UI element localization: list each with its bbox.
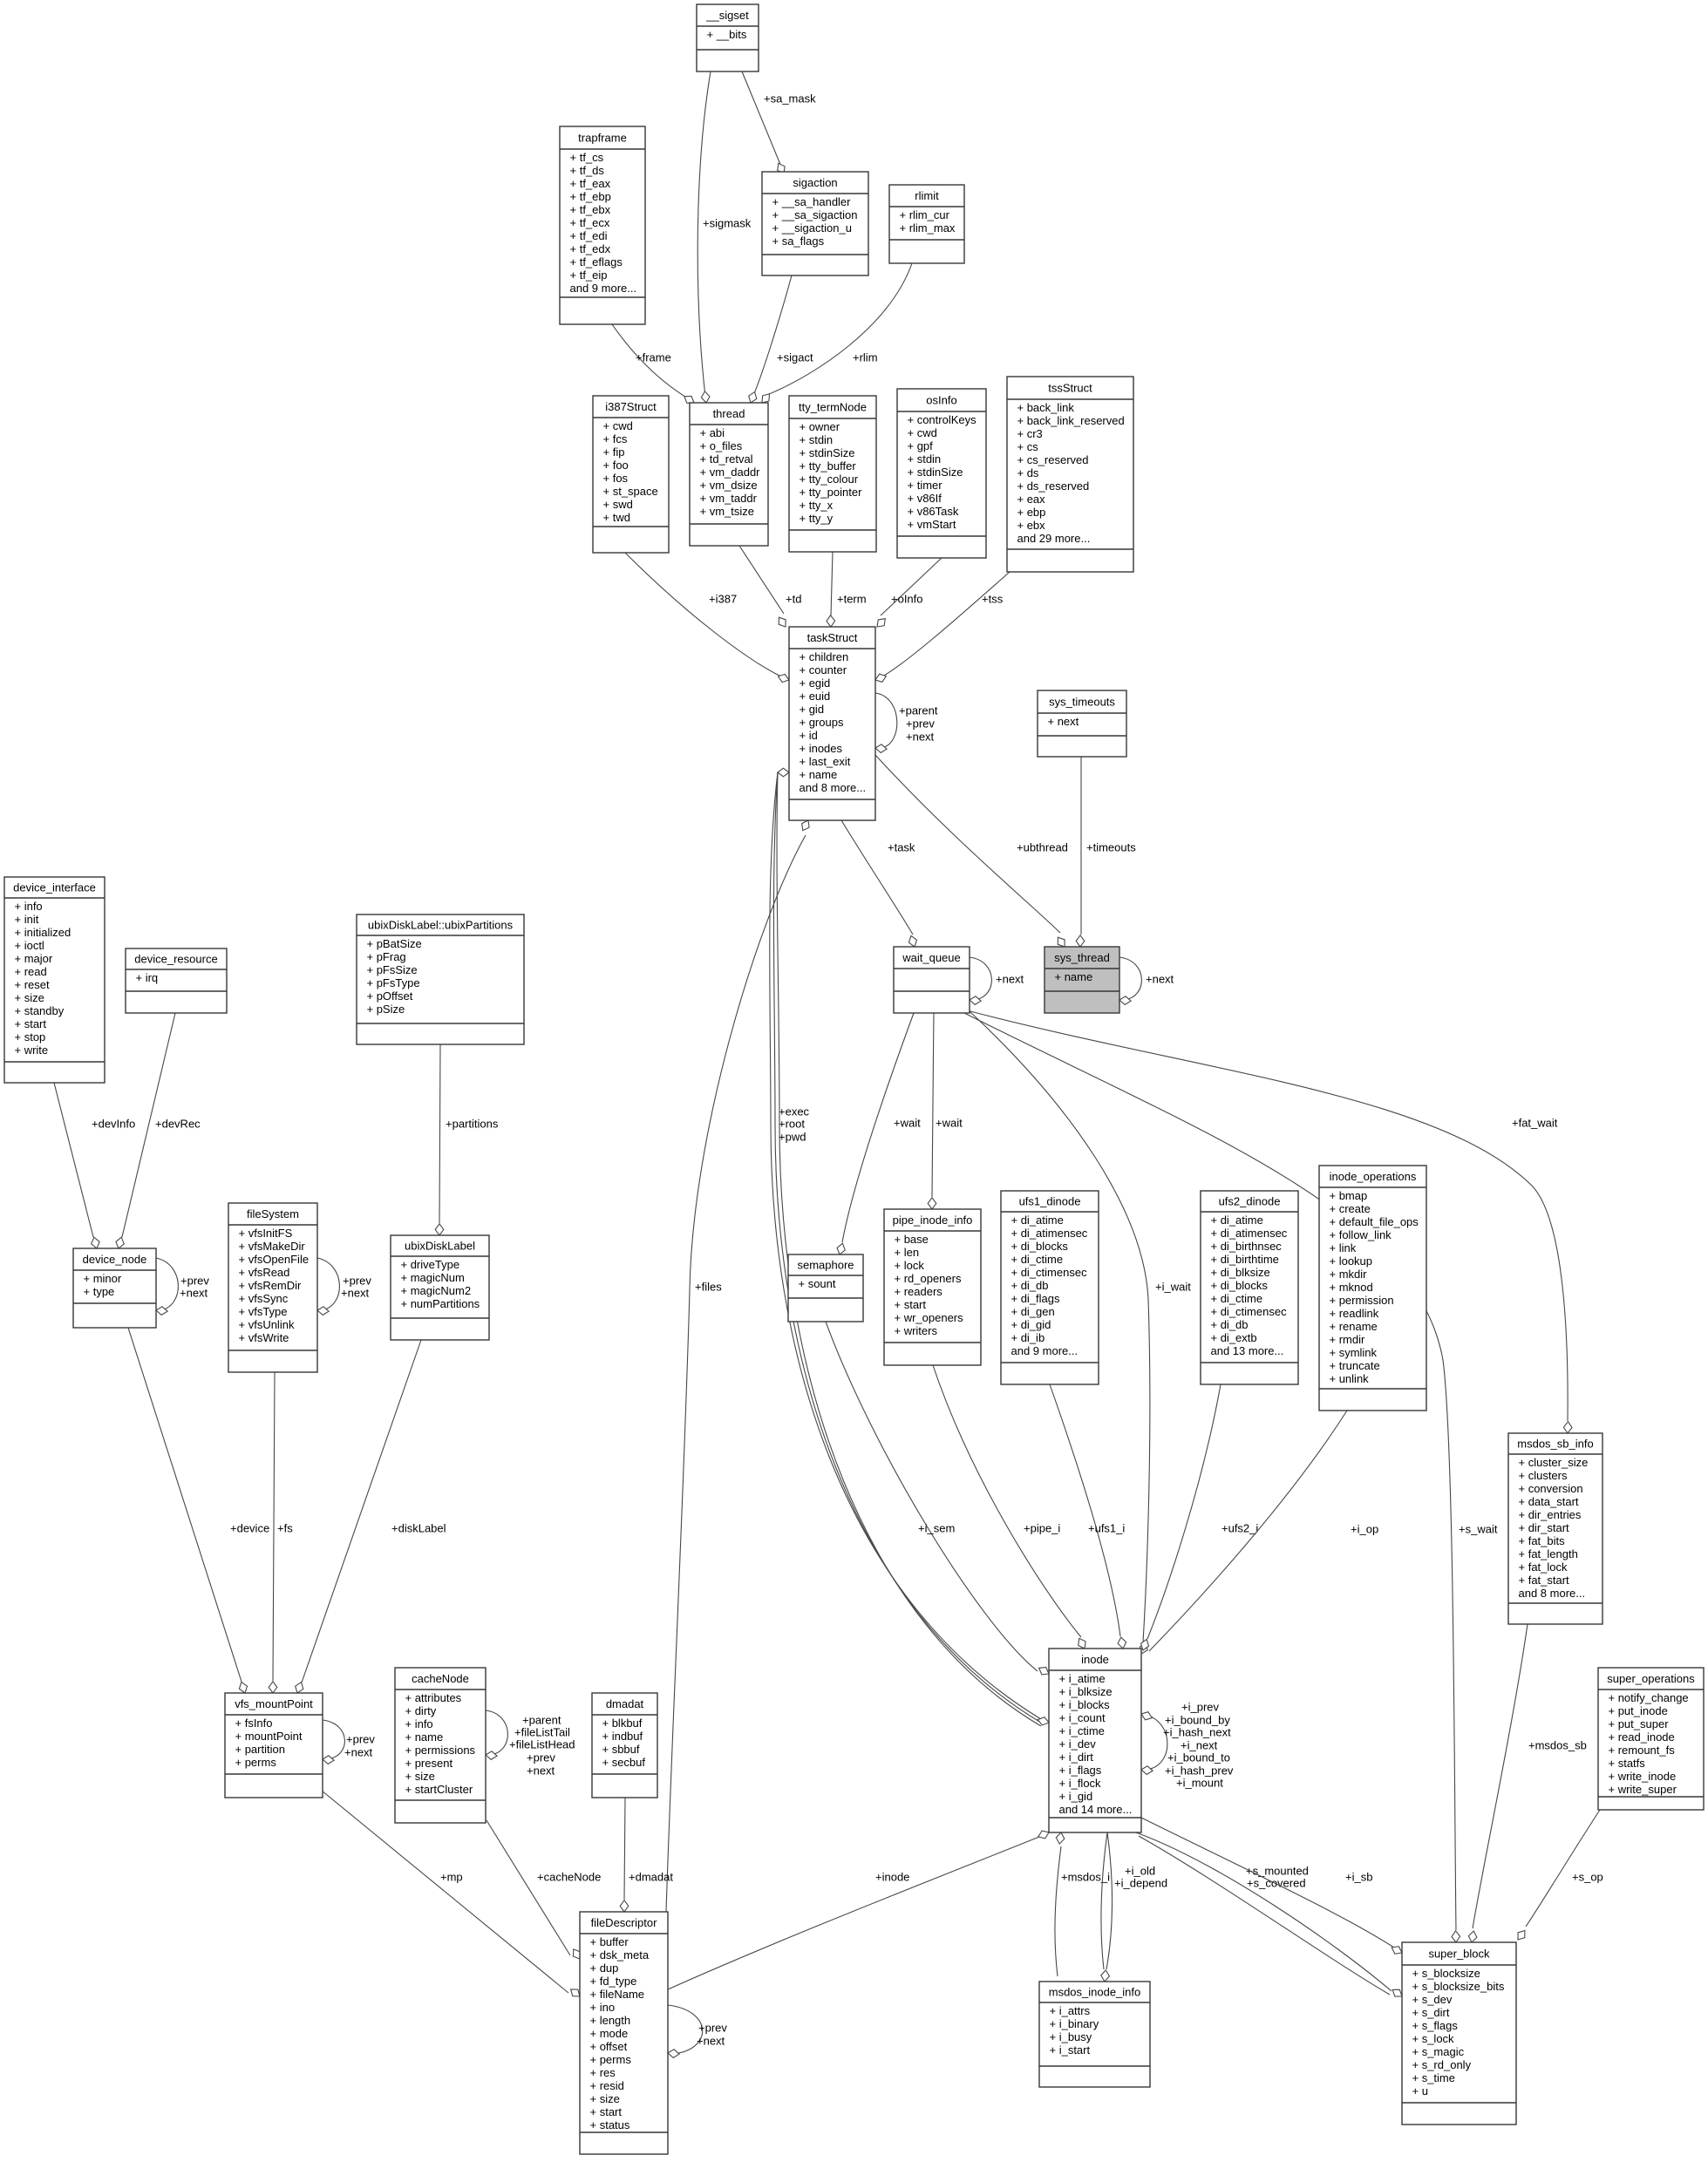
svg-text:+ size: + size: [405, 1770, 435, 1783]
svg-text:+ put_inode: + put_inode: [1609, 1704, 1668, 1717]
svg-text:+ readlink: + readlink: [1330, 1307, 1379, 1320]
svg-text:+ di_ctimensec: + di_ctimensec: [1011, 1266, 1088, 1279]
svg-text:+ vm_daddr: + vm_daddr: [700, 466, 761, 479]
svg-text:+parent: +parent: [899, 704, 938, 717]
svg-text:+fileListHead: +fileListHead: [509, 1737, 575, 1751]
svg-text:sys_timeouts: sys_timeouts: [1049, 695, 1115, 708]
svg-text:+ permission: + permission: [1330, 1294, 1394, 1307]
svg-text:sys_thread: sys_thread: [1054, 951, 1110, 964]
class sys_thread: [1045, 947, 1119, 1013]
svg-text:+ td_retval: + td_retval: [700, 452, 753, 466]
svg-text:tty_termNode: tty_termNode: [799, 400, 867, 413]
svg-text:+devRec: +devRec: [155, 1117, 201, 1130]
svg-text:+ create: + create: [1330, 1202, 1371, 1215]
svg-text:+ vfsRemDir: + vfsRemDir: [239, 1279, 303, 1292]
svg-text:+ conversion: + conversion: [1519, 1482, 1583, 1495]
svg-text:+ dir_entries: + dir_entries: [1519, 1508, 1582, 1521]
class fileSystem: [228, 1203, 317, 1372]
svg-text:+ link: + link: [1330, 1241, 1357, 1254]
svg-text:ufs1_dinode: ufs1_dinode: [1019, 1194, 1081, 1207]
svg-text:ubixDiskLabel: ubixDiskLabel: [405, 1239, 475, 1252]
svg-text:+tss: +tss: [982, 592, 1004, 605]
svg-text:+ di_birthnsec: + di_birthnsec: [1211, 1240, 1283, 1253]
svg-text:+ size: + size: [590, 2092, 620, 2105]
svg-text:+ cs_reserved: + cs_reserved: [1017, 453, 1089, 466]
class cacheNode: [395, 1668, 486, 1823]
wire +pwd (taskStruct to inode): [777, 772, 1049, 1726]
wire +i_wait (wait_queue to inode): [970, 1011, 1191, 1654]
wire +i_depend (msdos_inode_info to inode): [1106, 1832, 1167, 1969]
svg-text:+ mountPoint: + mountPoint: [235, 1730, 303, 1743]
svg-text:+ di_gen: + di_gen: [1011, 1305, 1055, 1318]
svg-text:+ u: + u: [1412, 2084, 1428, 2097]
svg-text:+ tf_ds: + tf_ds: [570, 164, 605, 177]
svg-text:+fat_wait: +fat_wait: [1512, 1116, 1558, 1129]
class sys_timeouts: [1038, 690, 1126, 757]
svg-text:+ gpf: + gpf: [908, 439, 934, 452]
svg-text:+i_bound_by: +i_bound_by: [1165, 1713, 1230, 1726]
svg-text:+ __sa_sigaction: + __sa_sigaction: [772, 208, 858, 221]
svg-text:+ write_super: + write_super: [1609, 1783, 1677, 1796]
svg-text:+next: +next: [1146, 972, 1174, 985]
wire self-loop +next (wait_queue): [970, 957, 1024, 1004]
svg-text:+ len: + len: [895, 1246, 920, 1259]
wire +partitions (ubixDiskLabel::ubixPartitions to ubixDiskLabel): [435, 1044, 499, 1235]
svg-text:+i_mount: +i_mount: [1176, 1776, 1223, 1789]
svg-text:+ size: + size: [15, 991, 44, 1004]
svg-text:+ v86If: + v86If: [908, 492, 942, 505]
svg-text:+ major: + major: [15, 952, 53, 965]
svg-text:+ i_start: + i_start: [1050, 2043, 1091, 2057]
wire self-loop +i_prev +i_bound_by +i_hash_next +i_next +i_bound_to +i_hash_prev +i_mount (inode): [1141, 1700, 1234, 1789]
svg-text:+ sount: + sount: [799, 1277, 836, 1290]
wire +s_mounted (inode to super_block): [1136, 1832, 1402, 1996]
svg-text:+ vfsUnlink: + vfsUnlink: [239, 1318, 295, 1331]
svg-text:+ default_file_ops: + default_file_ops: [1330, 1215, 1419, 1228]
svg-text:+ name: + name: [800, 768, 838, 781]
class thread: [690, 403, 768, 546]
svg-text:+ s_time: + s_time: [1412, 2071, 1456, 2084]
wire +ubthread (taskStruct to sys_thread): [875, 755, 1068, 947]
svg-text:+ i_count: + i_count: [1059, 1711, 1106, 1724]
svg-text:+ children: + children: [800, 650, 849, 663]
svg-text:+ rlim_max: + rlim_max: [900, 221, 956, 235]
wire +s_op (super_operations to super_block): [1518, 1810, 1603, 1940]
wire +files (fileDescriptor to taskStruct): [666, 820, 809, 1912]
svg-text:+ res: + res: [590, 2066, 616, 2079]
svg-text:+devInfo: +devInfo: [92, 1117, 135, 1130]
svg-text:+ o_files: + o_files: [700, 439, 743, 452]
class dmadat: [592, 1693, 657, 1798]
svg-text:+ rmdir: + rmdir: [1330, 1333, 1365, 1346]
wire +ufs1_i (ufs1_dinode to inode): [1050, 1384, 1126, 1649]
wire +msdos_sb (msdos_sb_info to super_block): [1468, 1624, 1586, 1942]
svg-text:+ sa_flags: + sa_flags: [772, 235, 825, 248]
svg-text:+ egid: + egid: [800, 676, 831, 690]
svg-text:and 9 more...: and 9 more...: [1011, 1344, 1079, 1357]
svg-text:+ mkdir: + mkdir: [1330, 1268, 1368, 1281]
svg-text:+ tf_eax: + tf_eax: [570, 177, 611, 190]
svg-text:+ tf_eip: + tf_eip: [570, 269, 608, 282]
svg-text:and 14 more...: and 14 more...: [1059, 1803, 1133, 1816]
svg-text:+ tf_edi: + tf_edi: [570, 229, 608, 242]
svg-text:+ __sa_handler: + __sa_handler: [772, 195, 852, 208]
svg-text:msdos_inode_info: msdos_inode_info: [1049, 1985, 1141, 1998]
svg-text:+prev: +prev: [527, 1751, 555, 1764]
wire +sa_mask (__sigset to sigaction): [742, 71, 816, 173]
svg-text:+ di_birthtime: + di_birthtime: [1211, 1253, 1279, 1266]
svg-text:+pwd: +pwd: [779, 1130, 806, 1143]
svg-text:device_node: device_node: [83, 1253, 147, 1266]
class inode_operations: [1319, 1166, 1426, 1411]
svg-text:+ start: + start: [15, 1017, 47, 1030]
svg-text:+ dirty: + dirty: [405, 1704, 437, 1717]
svg-text:+ fos: + fos: [603, 472, 629, 485]
svg-text:+ tty_buffer: + tty_buffer: [800, 459, 857, 473]
wire +oInfo (osInfo to taskStruct): [877, 558, 942, 627]
svg-text:+ tty_colour: + tty_colour: [800, 473, 859, 486]
svg-text:+ gid: + gid: [800, 703, 825, 716]
svg-text:+ fat_start: + fat_start: [1519, 1574, 1570, 1587]
svg-text:+ secbuf: + secbuf: [602, 1756, 646, 1769]
svg-text:+ di_ctime: + di_ctime: [1211, 1292, 1263, 1305]
svg-text:+ foo: + foo: [603, 459, 629, 472]
svg-text:+ last_exit: + last_exit: [800, 755, 851, 768]
svg-text:+ tf_ebp: + tf_ebp: [570, 190, 611, 203]
svg-text:+next: +next: [180, 1286, 208, 1299]
svg-text:+ ds_reserved: + ds_reserved: [1017, 479, 1090, 493]
svg-text:super_block: super_block: [1428, 1947, 1490, 1960]
svg-text:+ ebx: + ebx: [1017, 519, 1046, 532]
class super_operations: [1598, 1668, 1704, 1810]
wire +i_old (msdos_inode_info to inode): [1101, 1832, 1155, 1982]
class ubixDiskLabel: [391, 1235, 489, 1340]
class semaphore: [788, 1254, 863, 1322]
wire +i_sb (inode to super_block): [1141, 1818, 1402, 1954]
svg-text:+ readers: + readers: [895, 1285, 943, 1298]
svg-text:+ tf_edx: + tf_edx: [570, 242, 611, 255]
svg-text:+prev: +prev: [180, 1274, 209, 1287]
class pipe_inode_info: [884, 1209, 981, 1365]
svg-text:+ base: + base: [895, 1233, 929, 1246]
svg-text:+timeouts: +timeouts: [1086, 840, 1136, 853]
svg-text:+ di_atime: + di_atime: [1211, 1214, 1263, 1227]
svg-text:+ standby: + standby: [15, 1004, 65, 1017]
svg-text:+ fat_length: + fat_length: [1519, 1547, 1578, 1560]
wire +diskLabel (ubixDiskLabel to vfs_mountPoint): [296, 1340, 446, 1693]
svg-text:+ fsInfo: + fsInfo: [235, 1717, 273, 1730]
svg-text:+ di_extb: + di_extb: [1211, 1331, 1257, 1344]
class msdos_sb_info: [1508, 1433, 1603, 1624]
svg-text:+ fileName: + fileName: [590, 1988, 645, 2001]
wire +timeouts (sys_timeouts to sys_thread): [1076, 757, 1136, 947]
svg-text:+ attributes: + attributes: [405, 1691, 462, 1704]
class taskStruct: [789, 627, 875, 820]
class vfs_mountPoint: [225, 1693, 323, 1798]
svg-text:+parent: +parent: [522, 1713, 561, 1726]
svg-text:+pipe_i: +pipe_i: [1024, 1521, 1060, 1534]
svg-text:+ init: + init: [15, 913, 39, 926]
wire +mp (vfs_mountPoint to fileDescriptor): [322, 1791, 580, 1996]
svg-text:+ di_flags: + di_flags: [1011, 1292, 1061, 1305]
svg-text:+ length: + length: [590, 2014, 631, 2027]
wire +fat_wait (wait_queue to msdos_sb_info): [967, 1010, 1572, 1433]
svg-text:+ cluster_size: + cluster_size: [1519, 1456, 1589, 1469]
wire +i_sem (semaphore to inode): [826, 1322, 1049, 1675]
wire +tss (tssStruct to taskStruct): [875, 572, 1010, 682]
class device_interface: [4, 877, 105, 1083]
svg-text:+ vmStart: + vmStart: [908, 518, 956, 531]
svg-text:+ id: + id: [800, 729, 818, 742]
wire +cacheNode (cacheNode to fileDescriptor): [487, 1820, 601, 1959]
svg-text:+ ino: + ino: [590, 2001, 616, 2014]
svg-text:dmadat: dmadat: [606, 1697, 644, 1710]
wire +s_wait (wait_queue to super_block): [964, 1013, 1498, 1942]
class msdos_inode_info: [1039, 1982, 1150, 2087]
svg-text:pipe_inode_info: pipe_inode_info: [893, 1214, 973, 1227]
svg-text:and 8 more...: and 8 more...: [800, 781, 867, 794]
svg-text:+ s_blocksize_bits: + s_blocksize_bits: [1412, 1980, 1505, 1993]
svg-text:+ di_db: + di_db: [1211, 1318, 1249, 1331]
class ubixDiskLabel::ubixPartitions: [357, 914, 524, 1044]
svg-text:+next: +next: [341, 1286, 370, 1299]
svg-text:semaphore: semaphore: [797, 1258, 854, 1271]
svg-text:+dmadat: +dmadat: [629, 1870, 673, 1883]
svg-text:+ vfsMakeDir: + vfsMakeDir: [239, 1240, 306, 1253]
svg-text:+ bmap: + bmap: [1330, 1189, 1368, 1202]
svg-text:+ remount_fs: + remount_fs: [1609, 1744, 1676, 1757]
svg-text:+ put_super: + put_super: [1609, 1717, 1670, 1730]
svg-text:+ offset: + offset: [590, 2040, 628, 2053]
class inode: [1049, 1649, 1141, 1832]
svg-text:+ counter: + counter: [800, 663, 847, 676]
svg-text:+ start: + start: [895, 1298, 927, 1311]
svg-text:+ tf_eflags: + tf_eflags: [570, 255, 623, 269]
svg-text:+ tf_cs: + tf_cs: [570, 151, 604, 164]
svg-text:+td: +td: [786, 592, 801, 605]
svg-text:+ info: + info: [405, 1717, 433, 1730]
svg-text:+prev: +prev: [343, 1274, 371, 1287]
wire self-loop +next (sys_thread): [1119, 957, 1174, 1004]
wire +dmadat (dmadat to fileDescriptor): [620, 1798, 673, 1912]
svg-text:+ initialized: + initialized: [15, 926, 71, 939]
svg-text:+ stdinSize: + stdinSize: [908, 466, 963, 479]
svg-text:+ i_flock: + i_flock: [1059, 1777, 1102, 1790]
svg-text:+next: +next: [344, 1745, 373, 1758]
svg-text:+ di_ib: + di_ib: [1011, 1331, 1045, 1344]
svg-text:+ stdinSize: + stdinSize: [800, 446, 855, 459]
svg-text:+ magicNum2: + magicNum2: [401, 1284, 472, 1297]
svg-text:i387Struct: i387Struct: [605, 400, 657, 413]
svg-text:+ fcs: + fcs: [603, 432, 628, 445]
svg-text:+ present: + present: [405, 1757, 453, 1770]
svg-text:+ blkbuf: + blkbuf: [602, 1717, 643, 1730]
svg-text:+ i_ctime: + i_ctime: [1059, 1724, 1105, 1737]
svg-text:+next: +next: [527, 1764, 555, 1777]
svg-text:+ fat_lock: + fat_lock: [1519, 1560, 1569, 1574]
svg-text:+prev: +prev: [346, 1732, 375, 1745]
svg-text:+ i_binary: + i_binary: [1050, 2017, 1099, 2030]
svg-text:+wait: +wait: [936, 1116, 963, 1129]
svg-text:+ lock: + lock: [895, 1259, 925, 1272]
svg-text:+ info: + info: [15, 900, 43, 913]
wire +i387 (i387Struct to taskStruct): [625, 553, 789, 683]
svg-text:+fs: +fs: [277, 1521, 293, 1534]
svg-text:+ read_inode: + read_inode: [1609, 1730, 1675, 1744]
svg-text:__sigset: __sigset: [705, 9, 749, 22]
svg-text:+ st_space: + st_space: [603, 485, 658, 498]
svg-text:+cacheNode: +cacheNode: [537, 1870, 601, 1883]
svg-text:+ di_atime: + di_atime: [1011, 1214, 1064, 1227]
svg-text:+mp: +mp: [440, 1870, 463, 1883]
svg-text:+i_bound_to: +i_bound_to: [1167, 1751, 1230, 1764]
svg-text:msdos_sb_info: msdos_sb_info: [1517, 1437, 1593, 1450]
svg-text:+ vm_tsize: + vm_tsize: [700, 505, 755, 518]
svg-text:thread: thread: [713, 407, 745, 420]
svg-text:+ cwd: + cwd: [908, 426, 937, 439]
svg-text:+ euid: + euid: [800, 690, 831, 703]
svg-text:+ perms: + perms: [590, 2053, 632, 2066]
svg-text:+ cs: + cs: [1017, 440, 1039, 453]
svg-text:and 29 more...: and 29 more...: [1017, 532, 1091, 545]
wire self-loop +prev +next (device_node): [156, 1258, 209, 1315]
wire +term (tty_termNode to taskStruct): [827, 552, 867, 627]
svg-text:+ abi: + abi: [700, 426, 725, 439]
svg-text:+i_prev: +i_prev: [1181, 1700, 1219, 1713]
svg-text:+ notify_change: + notify_change: [1609, 1691, 1689, 1704]
wire self-loop +prev +next (fileSystem): [317, 1258, 371, 1315]
svg-text:+ statfs: + statfs: [1609, 1757, 1646, 1770]
svg-text:+ status: + status: [590, 2118, 630, 2131]
svg-text:+i_hash_prev: +i_hash_prev: [1165, 1764, 1234, 1777]
wire +inode (fileDescriptor to inode): [668, 1831, 1049, 1989]
svg-text:+ numPartitions: + numPartitions: [401, 1297, 480, 1310]
svg-text:+ read: + read: [15, 965, 47, 978]
class fileDescriptor: [580, 1912, 668, 2154]
svg-text:+term: +term: [837, 592, 867, 605]
svg-text:+ write: + write: [15, 1044, 49, 1057]
svg-text:+ wr_openers: + wr_openers: [895, 1311, 964, 1324]
svg-text:and 9 more...: and 9 more...: [570, 282, 637, 295]
svg-text:+ s_magic: + s_magic: [1412, 2045, 1465, 2058]
svg-text:+s_wait: +s_wait: [1459, 1522, 1498, 1535]
svg-text:+diskLabel: +diskLabel: [391, 1521, 446, 1534]
svg-text:+ di_atimensec: + di_atimensec: [1011, 1227, 1088, 1240]
svg-text:+ vfsWrite: + vfsWrite: [239, 1331, 289, 1344]
svg-text:inode: inode: [1081, 1653, 1109, 1666]
svg-text:+ cwd: + cwd: [603, 419, 633, 432]
svg-text:+ lookup: + lookup: [1330, 1254, 1373, 1268]
svg-text:+ start: + start: [590, 2105, 623, 2118]
svg-text:+msdos_sb: +msdos_sb: [1528, 1738, 1587, 1751]
svg-text:+ irq: + irq: [136, 971, 159, 984]
svg-text:+i387: +i387: [709, 592, 737, 605]
class tssStruct: [1007, 377, 1133, 572]
svg-text:+ eax: + eax: [1017, 493, 1046, 506]
wire +sigact (sigaction to thread): [749, 275, 813, 403]
svg-text:+i_sem: +i_sem: [918, 1521, 955, 1534]
class ufs2_dinode: [1201, 1191, 1298, 1384]
wire +i_op (inode_operations to inode): [1149, 1411, 1378, 1651]
wire +msdos_i (inode to msdos_inode_info): [1055, 1832, 1110, 1976]
svg-text:sigaction: sigaction: [793, 176, 837, 189]
svg-text:+ pFsType: + pFsType: [367, 976, 420, 989]
svg-text:+device: +device: [230, 1521, 269, 1534]
svg-text:+ reset: + reset: [15, 978, 50, 991]
wire +devRec (device_resource to device_node): [116, 1013, 201, 1248]
svg-text:+ controlKeys: + controlKeys: [908, 413, 977, 426]
svg-text:+ mode: + mode: [590, 2027, 629, 2040]
svg-text:+ swd: + swd: [603, 498, 633, 511]
svg-text:+sigact: +sigact: [777, 350, 813, 364]
svg-text:+ vm_dsize: + vm_dsize: [700, 479, 758, 492]
svg-text:+ pFrag: + pFrag: [367, 950, 406, 963]
svg-text:+i_depend: +i_depend: [1114, 1876, 1167, 1889]
svg-text:+s_covered: +s_covered: [1247, 1876, 1306, 1889]
svg-text:+sigmask: +sigmask: [703, 216, 752, 229]
svg-text:+ stop: + stop: [15, 1030, 46, 1044]
wire +frame (trapframe to thread): [612, 324, 694, 403]
class trapframe: [560, 126, 645, 324]
svg-text:+i_next: +i_next: [1181, 1738, 1218, 1751]
svg-text:+ di_blksize: + di_blksize: [1211, 1266, 1270, 1279]
svg-text:+ di_gid: + di_gid: [1011, 1318, 1051, 1331]
svg-text:+ di_db: + di_db: [1011, 1279, 1049, 1292]
wire +wait (wait_queue to pipe_inode_info): [928, 1013, 963, 1209]
class tty_termNode: [789, 396, 876, 552]
svg-text:fileSystem: fileSystem: [247, 1207, 299, 1220]
svg-text:osInfo: osInfo: [926, 393, 956, 406]
svg-text:+ s_dev: + s_dev: [1412, 1993, 1453, 2006]
svg-text:+next: +next: [906, 730, 935, 743]
svg-text:+ groups: + groups: [800, 716, 844, 729]
svg-text:+sa_mask: +sa_mask: [764, 92, 816, 105]
svg-text:+ ds: + ds: [1017, 466, 1039, 479]
svg-text:+ ioctl: + ioctl: [15, 939, 44, 952]
wire +devInfo (device_interface to device_node): [54, 1083, 135, 1248]
svg-text:+root: +root: [779, 1117, 805, 1130]
svg-text:+ name: + name: [1055, 970, 1093, 983]
svg-text:fileDescriptor: fileDescriptor: [591, 1916, 658, 1929]
svg-text:+ inodes: + inodes: [800, 742, 843, 755]
svg-text:+prev: +prev: [906, 717, 935, 730]
svg-text:+ driveType: + driveType: [401, 1258, 460, 1271]
svg-text:taskStruct: taskStruct: [807, 631, 858, 644]
svg-text:+ i_dirt: + i_dirt: [1059, 1751, 1094, 1764]
svg-text:+ sbbuf: + sbbuf: [602, 1743, 640, 1756]
svg-text:+rlim: +rlim: [853, 350, 878, 364]
svg-text:+ di_blocks: + di_blocks: [1211, 1279, 1269, 1292]
wire +device (device_node to vfs_mountPoint): [128, 1328, 269, 1693]
svg-text:+ v86Task: + v86Task: [908, 505, 959, 518]
class osInfo: [897, 389, 986, 558]
svg-text:+ perms: + perms: [235, 1756, 277, 1769]
svg-text:+task: +task: [888, 840, 915, 853]
svg-text:+ fd_type: + fd_type: [590, 1975, 637, 1988]
svg-text:+i_wait: +i_wait: [1155, 1280, 1191, 1293]
svg-text:+files: +files: [695, 1280, 722, 1293]
svg-text:+ magicNum: + magicNum: [401, 1271, 465, 1284]
wire +exec (taskStruct to inode): [770, 768, 1041, 1719]
svg-text:+next: +next: [697, 2034, 725, 2047]
svg-text:+ __sigaction_u: + __sigaction_u: [772, 221, 852, 235]
svg-text:+ di_atimensec: + di_atimensec: [1211, 1227, 1288, 1240]
svg-text:+ vfsSync: + vfsSync: [239, 1292, 289, 1305]
class i387Struct: [593, 396, 669, 553]
svg-text:+ i_attrs: + i_attrs: [1050, 2004, 1091, 2017]
svg-text:+ cr3: + cr3: [1017, 427, 1043, 440]
svg-text:+ write_inode: + write_inode: [1609, 1770, 1677, 1783]
